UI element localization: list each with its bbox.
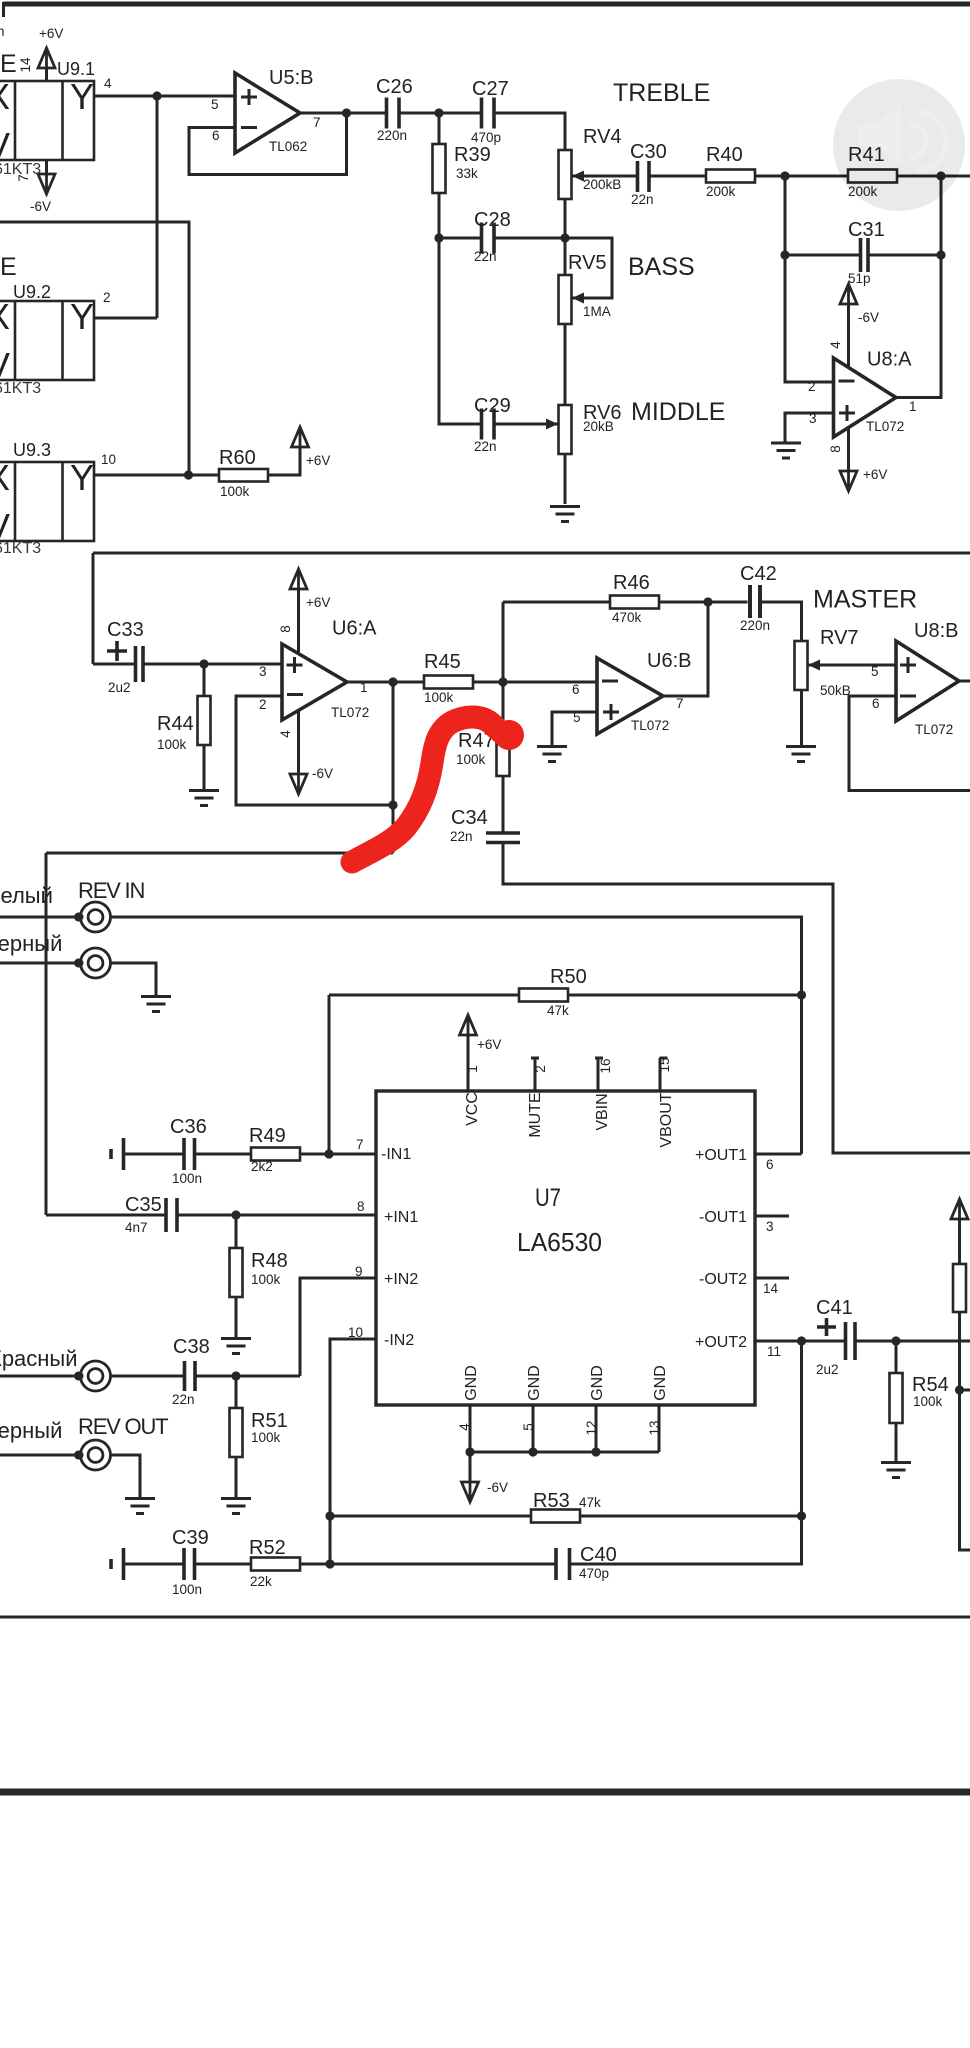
svg-text:22n: 22n (474, 249, 497, 264)
svg-text:R60: R60 (219, 447, 256, 469)
svg-text:C29: C29 (474, 395, 511, 417)
svg-text:4n7: 4n7 (125, 1220, 148, 1235)
svg-text:R46: R46 (613, 572, 650, 594)
svg-text:16: 16 (598, 1058, 613, 1073)
svg-text:TL072: TL072 (631, 718, 669, 733)
svg-text:+6V: +6V (306, 595, 330, 610)
svg-text:22n: 22n (474, 439, 497, 454)
svg-text:22n: 22n (172, 1392, 195, 1407)
svg-text:1MA: 1MA (583, 304, 611, 319)
svg-text:4: 4 (828, 341, 843, 349)
svg-text:C33: C33 (107, 619, 144, 641)
svg-text:22k: 22k (250, 1574, 272, 1589)
svg-text:R53: R53 (533, 1490, 570, 1512)
svg-text:9: 9 (355, 1264, 363, 1279)
svg-text:C34: C34 (451, 807, 488, 829)
svg-text:100k: 100k (251, 1430, 281, 1445)
svg-text:-6V: -6V (30, 199, 51, 214)
svg-text:R39: R39 (454, 144, 491, 166)
svg-text:8: 8 (828, 445, 843, 453)
svg-text:4: 4 (457, 1423, 472, 1431)
svg-text:U6:B: U6:B (647, 650, 691, 672)
svg-text:LA6530: LA6530 (517, 1227, 602, 1257)
svg-text:C36: C36 (170, 1116, 207, 1138)
svg-text:4: 4 (278, 730, 293, 738)
svg-text:R40: R40 (706, 144, 743, 166)
svg-text:220n: 220n (377, 128, 407, 143)
svg-text:X: X (0, 76, 10, 117)
svg-text:TL072: TL072 (331, 705, 369, 720)
svg-text:200kB: 200kB (583, 177, 621, 192)
svg-text:C38: C38 (173, 1336, 210, 1358)
svg-text:E: E (0, 50, 17, 78)
svg-text:33k: 33k (456, 166, 478, 181)
svg-text:BASS: BASS (628, 253, 695, 281)
svg-text:C39: C39 (172, 1527, 209, 1549)
svg-text:Y: Y (70, 296, 94, 337)
svg-text:6: 6 (212, 128, 220, 143)
svg-text:C40: C40 (580, 1544, 617, 1566)
svg-text:14: 14 (18, 57, 33, 73)
svg-text:C30: C30 (630, 141, 667, 163)
svg-text:100n: 100n (172, 1582, 202, 1597)
svg-text:RV5: RV5 (568, 252, 607, 274)
svg-text:R44: R44 (157, 713, 194, 735)
svg-text:3: 3 (766, 1219, 774, 1234)
svg-text:2: 2 (533, 1065, 548, 1073)
svg-text:RV7: RV7 (820, 627, 859, 649)
svg-text:U9.2: U9.2 (13, 282, 51, 302)
svg-text:Y: Y (70, 76, 94, 117)
svg-text:47k: 47k (547, 1003, 569, 1018)
svg-text:U9.3: U9.3 (13, 440, 51, 460)
svg-text:5: 5 (521, 1423, 536, 1431)
svg-text:470p: 470p (471, 130, 501, 145)
svg-text:VCC: VCC (464, 1092, 481, 1126)
svg-text:-6V: -6V (858, 310, 879, 325)
svg-text:E: E (0, 253, 17, 281)
svg-text:C28: C28 (474, 209, 511, 231)
svg-text:GND: GND (526, 1365, 543, 1401)
svg-text:3: 3 (809, 411, 817, 426)
svg-text:7: 7 (16, 174, 31, 182)
svg-text:2: 2 (808, 379, 816, 394)
svg-text:X: X (0, 457, 10, 498)
svg-text:47k: 47k (579, 1495, 601, 1510)
svg-text:11: 11 (767, 1344, 781, 1359)
svg-text:15: 15 (657, 1057, 672, 1072)
svg-text:VBOUT: VBOUT (658, 1092, 675, 1147)
svg-text:REV OUT: REV OUT (78, 1414, 168, 1439)
svg-text:6: 6 (766, 1157, 774, 1172)
svg-text:n: n (0, 24, 5, 39)
svg-text:5: 5 (211, 97, 219, 112)
svg-text:61KT3: 61KT3 (0, 540, 41, 557)
svg-text:TL062: TL062 (269, 139, 307, 154)
svg-text:-IN1: -IN1 (381, 1146, 411, 1163)
svg-text:220n: 220n (740, 618, 770, 633)
svg-text:8: 8 (357, 1199, 365, 1214)
svg-text:5: 5 (573, 710, 581, 725)
svg-text:U8:B: U8:B (914, 620, 958, 642)
svg-text:MUTE: MUTE (527, 1092, 544, 1137)
svg-text:1: 1 (360, 680, 368, 695)
svg-text:2: 2 (259, 697, 267, 712)
svg-text:Y: Y (70, 457, 94, 498)
svg-text:3: 3 (259, 664, 267, 679)
svg-text:RV4: RV4 (583, 126, 622, 148)
svg-text:R54: R54 (912, 1374, 949, 1396)
svg-text:50kB: 50kB (820, 683, 851, 698)
svg-text:V: V (0, 125, 10, 166)
svg-text:2u2: 2u2 (108, 680, 131, 695)
svg-text:+6V: +6V (39, 26, 63, 41)
svg-text:U8:A: U8:A (867, 349, 912, 371)
svg-text:-IN2: -IN2 (384, 1332, 414, 1349)
svg-text:10: 10 (101, 452, 116, 467)
svg-text:X: X (0, 296, 10, 337)
svg-text:470p: 470p (579, 1566, 609, 1581)
svg-text:20kB: 20kB (583, 419, 614, 434)
svg-text:REV IN: REV IN (78, 878, 144, 903)
svg-text:14: 14 (763, 1281, 779, 1296)
svg-text:7: 7 (356, 1137, 364, 1152)
svg-text:12: 12 (584, 1420, 599, 1435)
svg-text:C42: C42 (740, 563, 777, 585)
svg-text:U6:A: U6:A (332, 618, 377, 640)
svg-text:4: 4 (104, 76, 112, 91)
svg-text:R48: R48 (251, 1250, 288, 1272)
svg-text:100k: 100k (424, 690, 454, 705)
svg-text:100k: 100k (157, 737, 187, 752)
svg-text:6: 6 (572, 682, 580, 697)
svg-text:TL072: TL072 (915, 722, 953, 737)
svg-text:100k: 100k (913, 1394, 943, 1409)
svg-text:8: 8 (278, 625, 293, 633)
svg-text:U5:B: U5:B (269, 67, 313, 89)
svg-text:R50: R50 (550, 966, 587, 988)
svg-text:470k: 470k (612, 610, 642, 625)
svg-text:10: 10 (348, 1325, 363, 1340)
svg-text:C27: C27 (472, 78, 509, 100)
svg-text:C41: C41 (816, 1297, 853, 1319)
svg-text:-OUT1: -OUT1 (699, 1209, 747, 1226)
svg-text:+6V: +6V (477, 1037, 501, 1052)
svg-text:C26: C26 (376, 76, 413, 98)
svg-text:C31: C31 (848, 219, 885, 241)
svg-text:R49: R49 (249, 1125, 286, 1147)
svg-text:GND: GND (589, 1365, 606, 1401)
svg-text:13: 13 (647, 1420, 662, 1435)
svg-text:51p: 51p (848, 271, 871, 286)
svg-text:TL072: TL072 (866, 419, 904, 434)
svg-text:R51: R51 (251, 1410, 288, 1432)
svg-text:7: 7 (313, 115, 321, 130)
svg-text:MASTER: MASTER (813, 586, 917, 614)
svg-text:-OUT2: -OUT2 (699, 1271, 747, 1288)
svg-text:22n: 22n (450, 829, 473, 844)
svg-text:MIDDLE: MIDDLE (631, 398, 725, 426)
svg-text:Красный: Красный (0, 1346, 78, 1371)
svg-text:+OUT2: +OUT2 (695, 1334, 747, 1351)
svg-text:1: 1 (909, 399, 917, 414)
svg-text:+6V: +6V (863, 467, 887, 482)
svg-text:C35: C35 (125, 1194, 162, 1216)
svg-text:6: 6 (872, 696, 880, 711)
svg-text:Черный: Черный (0, 931, 62, 956)
svg-text:-6V: -6V (487, 1480, 508, 1495)
svg-text:Белый: Белый (0, 883, 53, 908)
svg-text:R45: R45 (424, 651, 461, 673)
svg-text:GND: GND (652, 1365, 669, 1401)
svg-text:61KT3: 61KT3 (0, 380, 41, 397)
svg-text:2k2: 2k2 (251, 1159, 273, 1174)
svg-text:7: 7 (676, 696, 684, 711)
svg-text:-6V: -6V (312, 766, 333, 781)
svg-text:+IN1: +IN1 (384, 1209, 418, 1226)
svg-text:100k: 100k (251, 1272, 281, 1287)
svg-text:+OUT1: +OUT1 (695, 1147, 747, 1164)
svg-text:Черный: Черный (0, 1418, 62, 1443)
svg-text:1: 1 (465, 1065, 480, 1073)
svg-text:2u2: 2u2 (816, 1362, 839, 1377)
svg-text:VBIN: VBIN (594, 1093, 611, 1130)
svg-text:100k: 100k (456, 752, 486, 767)
svg-text:U7: U7 (535, 1184, 561, 1212)
svg-text:+6V: +6V (306, 453, 330, 468)
svg-text:5: 5 (871, 664, 879, 679)
svg-text:GND: GND (463, 1365, 480, 1401)
svg-text:TREBLE: TREBLE (613, 79, 710, 107)
svg-text:200k: 200k (706, 184, 736, 199)
svg-text:2: 2 (103, 290, 111, 305)
svg-text:+IN2: +IN2 (384, 1271, 418, 1288)
svg-text:R52: R52 (249, 1537, 286, 1559)
svg-text:22n: 22n (631, 192, 654, 207)
svg-text:100k: 100k (220, 484, 250, 499)
svg-text:100n: 100n (172, 1171, 202, 1186)
